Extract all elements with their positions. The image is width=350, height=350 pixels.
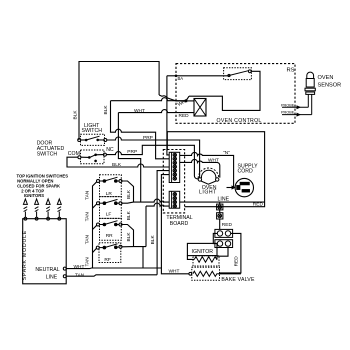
burner switch SW4 xyxy=(96,244,122,249)
wire BA riser down to terminal board xyxy=(167,76,169,155)
spark module LINE terminal xyxy=(63,275,66,278)
spark module NEUTRAL terminal xyxy=(63,267,66,270)
svg-text:OVEN: OVEN xyxy=(318,75,334,81)
svg-text:TAN: TAN xyxy=(84,257,90,267)
wire relay output loop xyxy=(189,71,260,110)
wire TB stub row5 to TAN riser xyxy=(157,171,169,275)
svg-text:BA: BA xyxy=(178,76,184,81)
wire WHT riser down to y158 run xyxy=(118,113,140,203)
svg-text:OVEN CONTROL: OVEN CONTROL xyxy=(217,118,262,124)
screw terminal T1 xyxy=(217,204,223,210)
door switch S2 dashed box xyxy=(81,150,105,164)
wire probe 2 with arrow xyxy=(282,114,312,116)
bake valve inlet circle xyxy=(189,272,192,275)
svg-text:BLK: BLK xyxy=(112,162,122,168)
screw terminal T2 xyxy=(217,213,223,219)
wire bus A into TB row (from burner switches 1,2) xyxy=(134,199,170,202)
burner switch SW3 xyxy=(97,221,123,226)
svg-text:NC: NC xyxy=(106,147,114,153)
burner switch SW4 (RF) dashed box xyxy=(99,243,121,263)
svg-text:TAN: TAN xyxy=(75,272,85,278)
svg-text:RED: RED xyxy=(179,113,190,119)
svg-text:WHT: WHT xyxy=(74,264,85,270)
wire BLK net horizontal to node A xyxy=(111,98,187,101)
wire bus B into TB row (from burner switches 3,4) xyxy=(146,203,169,206)
svg-text:BLK: BLK xyxy=(150,235,156,245)
wire WHT to oven light xyxy=(180,159,220,177)
wire WHT neutral run xyxy=(66,268,189,274)
svg-text:BLK: BLK xyxy=(103,105,109,115)
burner switch SW3 (RR) dashed box xyxy=(100,218,122,240)
wire diagonal from riser into node A xyxy=(159,95,186,101)
wire probe 1 with arrow xyxy=(282,106,308,108)
wire coil RED input from left xyxy=(118,110,194,113)
svg-text:SENSOR: SENSOR xyxy=(318,83,342,89)
svg-text:IGNITORS: IGNITORS xyxy=(24,193,44,198)
svg-text:TAN: TAN xyxy=(84,235,90,245)
burner switch SW1 xyxy=(97,177,123,182)
wire sw2 output into bus A xyxy=(122,202,134,203)
wire PRP from light switch to lamp xyxy=(107,137,200,178)
wire TAN line run xyxy=(66,275,157,276)
svg-text:WHT: WHT xyxy=(169,268,180,274)
wire COM BLK down and right to terminal board xyxy=(67,157,169,167)
oven sensor body xyxy=(305,72,315,115)
terminal strip TB1 (upper) xyxy=(169,152,180,182)
resistor R2 (bake valve coil) xyxy=(193,271,218,276)
ignitor box xyxy=(187,243,217,255)
svg-text:RED: RED xyxy=(222,222,233,228)
wire riser bus B down to RF wire xyxy=(145,206,147,247)
wire block A jumper to block B xyxy=(213,233,217,243)
junction dot on BA wire at box edge xyxy=(175,75,178,78)
svg-text:WHT: WHT xyxy=(208,158,219,164)
svg-text:NEUTRAL: NEUTRAL xyxy=(35,267,59,273)
burner switch SW1 (LR) dashed box xyxy=(100,175,122,197)
svg-text:RS: RS xyxy=(287,67,295,73)
resistor R2 dashed box xyxy=(192,267,220,280)
svg-text:LIGHT: LIGHT xyxy=(199,190,217,196)
terminal block B xyxy=(215,240,233,248)
wire coil WHT input xyxy=(186,100,194,102)
svg-text:SWITCH: SWITCH xyxy=(82,128,103,134)
wire BA from riser to relay xyxy=(167,75,229,77)
svg-text:WHT: WHT xyxy=(134,108,145,114)
svg-text:LINE: LINE xyxy=(46,274,58,280)
oven control dashed enclosure xyxy=(176,64,295,124)
wire sw3 output down to RF wire xyxy=(122,225,134,247)
wire diagonal to node A xyxy=(186,96,189,101)
wire NC PRP to lamp xyxy=(106,145,198,179)
wire TB stub row6 to WHT riser xyxy=(161,175,169,268)
supply box enclosure xyxy=(167,132,264,207)
svg-text:BLK: BLK xyxy=(73,110,79,120)
svg-text:PROBE: PROBE xyxy=(281,103,295,107)
supply cord plug P1 xyxy=(235,178,253,196)
svg-text:RED: RED xyxy=(233,256,239,267)
wire block B right down to ignitor xyxy=(217,248,228,260)
spark module pin 3 with spark arrow xyxy=(46,199,50,220)
svg-text:BLK: BLK xyxy=(126,189,132,199)
wire N from terminal board to plug with arrow xyxy=(180,152,234,187)
terminal block A xyxy=(215,229,233,237)
spark module pin 4 with spark arrow xyxy=(57,199,61,220)
burner switch SW2 xyxy=(97,199,123,204)
wire block A right to bake valve right xyxy=(219,233,241,273)
burner switch SW2 (LF) dashed box xyxy=(100,197,122,219)
svg-text:BAKE VALVE: BAKE VALVE xyxy=(221,277,255,283)
spark module box xyxy=(23,219,66,284)
svg-text:BOARD: BOARD xyxy=(170,221,189,227)
wire bake valve right lead xyxy=(218,273,241,275)
wire T1-T2 connector and RED drop xyxy=(219,202,221,229)
wire LINE from terminal board to right edge xyxy=(180,201,265,203)
wire sw4 output / RF wire to riser xyxy=(122,246,146,248)
wire riser from RF wire down to WHT neutral run xyxy=(142,247,144,268)
door switch S2 xyxy=(78,156,81,159)
svg-text:BLK: BLK xyxy=(126,210,132,220)
relay coil box with X xyxy=(194,99,206,117)
svg-text:RF: RF xyxy=(104,257,110,263)
oven light lamp xyxy=(198,168,219,184)
svg-text:IGNITOR: IGNITOR xyxy=(192,249,214,255)
svg-text:LINE: LINE xyxy=(218,196,230,202)
wire ignitor left lead xyxy=(187,256,194,260)
wire left TAN bus xyxy=(93,182,97,268)
svg-text:PROBE: PROBE xyxy=(281,111,295,115)
wire sw1 output down to bus A xyxy=(122,181,134,202)
svg-text:PRP: PRP xyxy=(127,149,137,155)
svg-text:CORD: CORD xyxy=(238,169,254,175)
svg-text:SWITCH: SWITCH xyxy=(37,152,58,158)
wire top feed horizontal xyxy=(79,62,159,141)
terminal strip TB2 (lower) xyxy=(169,191,180,208)
spark module pin 2 with spark arrow xyxy=(35,199,39,220)
resistor R1 (ignitor element) xyxy=(194,257,217,263)
light switch S1 dashed box xyxy=(81,134,105,145)
light switch S1 xyxy=(78,139,81,142)
relay K1 switch blade xyxy=(228,74,230,76)
wire BLK riser and jog to supply box xyxy=(111,101,170,159)
svg-text:RR: RR xyxy=(106,233,113,239)
svg-text:RED: RED xyxy=(253,201,264,207)
terminal board dashed enclosure xyxy=(163,150,184,213)
svg-text:PRP: PRP xyxy=(143,135,153,141)
svg-text:TAN: TAN xyxy=(84,212,90,222)
svg-text:BLK: BLK xyxy=(126,232,132,242)
node A junction dot xyxy=(185,100,188,103)
svg-text:SPARK MODULE: SPARK MODULE xyxy=(22,230,28,280)
label TOP IGNITION SWITCHES block xyxy=(17,174,69,199)
spark module pin 1 with spark arrow xyxy=(23,199,27,220)
svg-text:LF: LF xyxy=(106,212,112,218)
svg-text:TAN: TAN xyxy=(84,190,90,200)
relay K1 dashed box xyxy=(224,68,252,80)
resistor R1 dashed box xyxy=(193,256,219,266)
